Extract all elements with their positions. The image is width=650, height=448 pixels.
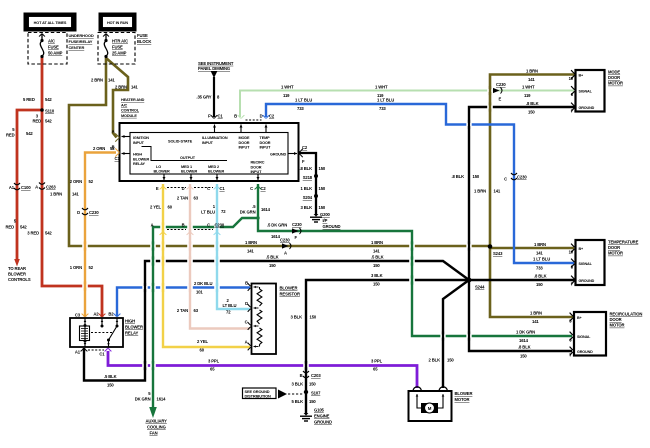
svg-text:BLOWER: BLOWER [8, 272, 26, 277]
svg-text:C2: C2 [302, 145, 308, 150]
svg-text:INPUT: INPUT [251, 170, 263, 174]
svg-text:C: C [250, 186, 253, 191]
svg-text:150: 150 [309, 399, 316, 404]
svg-text:DOOR: DOOR [608, 75, 620, 80]
svg-text:HIGH: HIGH [125, 319, 135, 324]
svg-text:.8 BLK: .8 BLK [299, 166, 312, 171]
svg-text:3 BLK: 3 BLK [291, 315, 303, 320]
svg-text:RECIRC: RECIRC [251, 161, 265, 165]
svg-text:542: 542 [45, 97, 52, 102]
svg-text:150: 150 [319, 205, 326, 210]
svg-text:RED: RED [6, 225, 15, 230]
svg-text:S110: S110 [45, 109, 55, 114]
svg-text:TEMPERATURE: TEMPERATURE [608, 240, 639, 245]
svg-text:119: 119 [283, 93, 290, 98]
svg-text:SIGNAL: SIGNAL [579, 262, 593, 266]
svg-text:INPUT: INPUT [260, 146, 272, 150]
svg-text:D: D [260, 114, 263, 119]
svg-text:1 LT BLU: 1 LT BLU [533, 257, 550, 262]
svg-text:150: 150 [528, 110, 535, 115]
svg-text:FAN: FAN [150, 431, 158, 436]
svg-text:GROUND: GROUND [270, 153, 287, 157]
svg-text:SIGNAL: SIGNAL [579, 89, 593, 93]
svg-text:50 AMP: 50 AMP [48, 51, 63, 56]
svg-text:D: D [77, 210, 80, 215]
svg-text:S244: S244 [475, 285, 485, 290]
svg-text:SEE INSTRUMENT: SEE INSTRUMENT [198, 61, 234, 66]
svg-text:DISTRIBUTION: DISTRIBUTION [245, 394, 272, 399]
svg-text:1 LT BLU: 1 LT BLU [377, 98, 394, 103]
svg-text:BLOWER: BLOWER [154, 170, 171, 174]
svg-text:150: 150 [473, 174, 480, 179]
svg-text:RED: RED [33, 118, 42, 123]
svg-text:1 WHT: 1 WHT [522, 85, 535, 90]
svg-text:BLOWER: BLOWER [181, 170, 198, 174]
svg-text:A: A [284, 251, 287, 256]
svg-text:BLOWER: BLOWER [208, 170, 225, 174]
svg-text:3 BLK: 3 BLK [301, 205, 313, 210]
svg-text:FUSE: FUSE [112, 45, 123, 50]
svg-text:.5 BLK: .5 BLK [266, 255, 279, 260]
svg-text:2 YEL: 2 YEL [197, 339, 209, 344]
svg-text:1 ORN: 1 ORN [70, 265, 82, 270]
svg-text:C: C [207, 186, 210, 191]
svg-text:2 BRN: 2 BRN [91, 78, 103, 83]
svg-text:DOOR: DOOR [610, 317, 622, 322]
svg-text:S107: S107 [311, 391, 321, 396]
svg-text:141: 141 [536, 251, 543, 256]
svg-text:141: 141 [72, 192, 79, 197]
svg-text:1614: 1614 [157, 397, 167, 402]
svg-text:COOLING: COOLING [147, 425, 166, 430]
svg-text:1614: 1614 [519, 338, 529, 343]
svg-text:2 BLK: 2 BLK [429, 358, 441, 363]
svg-text:141: 141 [108, 78, 115, 83]
svg-text:1 WHT: 1 WHT [281, 85, 294, 90]
svg-text:542: 542 [45, 231, 52, 236]
svg-text:B+: B+ [577, 316, 582, 320]
svg-text:C1: C1 [218, 114, 224, 119]
svg-text:HEATER AND: HEATER AND [121, 98, 145, 102]
svg-text:HIGH: HIGH [133, 153, 142, 157]
svg-text:150: 150 [373, 282, 380, 287]
svg-text:1 WHT: 1 WHT [375, 85, 388, 90]
svg-text:733: 733 [297, 106, 304, 111]
svg-text:B: B [300, 373, 303, 378]
svg-text:C2: C2 [269, 114, 275, 119]
svg-text:C230: C230 [496, 82, 506, 87]
svg-text:C100: C100 [21, 185, 31, 190]
svg-text:M: M [428, 406, 432, 411]
svg-text:MED 1: MED 1 [181, 165, 192, 169]
svg-text:25 AMP: 25 AMP [112, 51, 127, 56]
svg-text:2 BRN: 2 BRN [115, 85, 127, 90]
svg-text:1 BRN: 1 BRN [474, 189, 486, 194]
svg-text:A2: A2 [93, 312, 99, 317]
svg-text:S204: S204 [303, 195, 313, 200]
svg-text:1 BRN: 1 BRN [534, 242, 546, 247]
svg-text:LO: LO [156, 165, 161, 169]
svg-text:D: D [182, 186, 185, 191]
svg-text:ILLUMINATION: ILLUMINATION [202, 136, 228, 140]
svg-text:I/P: I/P [323, 218, 328, 223]
svg-text:150: 150 [310, 315, 317, 320]
svg-text:.5 DK GRN: .5 DK GRN [267, 223, 287, 228]
svg-text:.35 GRY: .35 GRY [196, 95, 211, 100]
svg-text:A/C: A/C [48, 39, 55, 44]
svg-text:BLOWER: BLOWER [125, 325, 143, 330]
svg-text:AUXILIARY: AUXILIARY [146, 419, 168, 424]
svg-text:TO REAR: TO REAR [8, 266, 26, 271]
svg-text:2 TAN: 2 TAN [177, 308, 188, 313]
svg-text:MOTOR: MOTOR [610, 323, 625, 328]
svg-text:RELAY: RELAY [133, 162, 146, 166]
svg-text:DOOR: DOOR [251, 165, 262, 169]
svg-text:S218: S218 [303, 175, 313, 180]
svg-text:TEMP: TEMP [260, 136, 271, 140]
svg-text:MODULE: MODULE [121, 114, 137, 118]
svg-text:1 LT BLU: 1 LT BLU [295, 98, 312, 103]
svg-text:MOTOR: MOTOR [608, 81, 623, 86]
svg-text:1 BRN: 1 BRN [530, 311, 542, 316]
svg-text:B: B [182, 223, 185, 228]
svg-text:FUSE: FUSE [48, 45, 59, 50]
svg-text:BLOCK: BLOCK [137, 39, 151, 44]
svg-text:C230: C230 [517, 175, 527, 180]
svg-text:RELAY: RELAY [125, 331, 139, 336]
svg-text:542: 542 [26, 131, 33, 136]
svg-text:C: C [504, 177, 507, 182]
svg-text:C263: C263 [46, 185, 56, 190]
svg-text:150: 150 [520, 354, 527, 359]
svg-text:B: B [234, 114, 237, 119]
svg-text:ENGINE: ENGINE [314, 414, 330, 419]
svg-text:CONTROL: CONTROL [121, 109, 140, 113]
svg-text:1 BRN: 1 BRN [526, 69, 538, 74]
svg-text:B+: B+ [579, 73, 584, 77]
svg-text:MOTOR: MOTOR [455, 397, 470, 402]
svg-text:INPUT: INPUT [239, 146, 251, 150]
svg-text:150: 150 [309, 382, 316, 387]
svg-text:2 YEL: 2 YEL [150, 205, 162, 210]
svg-text:141: 141 [528, 77, 535, 82]
svg-text:542: 542 [45, 118, 52, 123]
svg-text:2 ORN: 2 ORN [93, 146, 105, 151]
svg-text:733: 733 [536, 266, 543, 271]
svg-text:MED 2: MED 2 [208, 165, 219, 169]
svg-text:3 PPL: 3 PPL [371, 359, 383, 364]
svg-text:C203: C203 [311, 373, 321, 378]
svg-text:A1: A1 [9, 185, 15, 190]
svg-text:UNDERHOOD: UNDERHOOD [69, 33, 94, 38]
svg-text:1614: 1614 [261, 207, 271, 212]
svg-text:150: 150 [447, 358, 454, 363]
svg-text:CENTER: CENTER [69, 45, 85, 50]
svg-text:FUSE: FUSE [137, 33, 148, 38]
svg-text:150: 150 [319, 186, 326, 191]
svg-text:OUTPUT: OUTPUT [180, 156, 196, 160]
svg-text:LT BLU: LT BLU [201, 210, 215, 215]
svg-text:.8 BLK: .8 BLK [534, 274, 547, 279]
svg-text:2 ORN: 2 ORN [70, 179, 82, 184]
svg-text:RESISTOR: RESISTOR [280, 292, 300, 297]
svg-text:3 BLK: 3 BLK [371, 273, 383, 278]
svg-text:FUSE/RELAY: FUSE/RELAY [69, 39, 93, 44]
svg-text:150: 150 [319, 166, 326, 171]
svg-text:A1: A1 [75, 350, 81, 355]
svg-text:150: 150 [107, 383, 114, 388]
svg-text:GROUND: GROUND [323, 224, 341, 229]
svg-text:B+: B+ [579, 247, 584, 251]
svg-text:5 RED: 5 RED [23, 97, 35, 102]
svg-text:1 BRN: 1 BRN [245, 240, 257, 245]
svg-text:119: 119 [524, 93, 531, 98]
svg-text:5 BLK: 5 BLK [292, 399, 304, 404]
svg-text:CONTROLS: CONTROLS [8, 277, 31, 282]
svg-text:.5 BLK: .5 BLK [104, 374, 117, 379]
svg-text:DK GRN: DK GRN [240, 210, 256, 215]
svg-text:3 BLK: 3 BLK [292, 382, 304, 387]
svg-text:1 BRN: 1 BRN [50, 192, 62, 197]
svg-text:.8 BLK: .8 BLK [518, 345, 531, 350]
svg-text:MOTOR: MOTOR [608, 251, 623, 256]
svg-text:C230: C230 [215, 223, 225, 228]
svg-text:141: 141 [532, 319, 539, 324]
svg-text:DK GRN: DK GRN [135, 397, 151, 402]
svg-text:GROUND: GROUND [579, 279, 595, 283]
svg-text:2 TAN: 2 TAN [177, 196, 188, 201]
svg-text:BLOWER: BLOWER [133, 157, 150, 161]
svg-text:1 BLK: 1 BLK [301, 186, 313, 191]
svg-text:.8 BLK: .8 BLK [451, 174, 464, 179]
svg-text:A/C: A/C [121, 103, 128, 107]
svg-text:A: A [245, 340, 248, 345]
svg-text:HTR A/C: HTR A/C [112, 39, 128, 44]
svg-text:INPUT: INPUT [202, 141, 214, 145]
svg-text:INPUT: INPUT [133, 141, 145, 145]
svg-text:A: A [151, 223, 154, 228]
svg-text:LT BLU: LT BLU [223, 303, 237, 308]
svg-text:G200: G200 [320, 212, 331, 217]
svg-text:S243: S243 [493, 251, 503, 256]
svg-text:C1: C1 [99, 352, 105, 357]
svg-text:C2: C2 [261, 186, 267, 191]
svg-text:E: E [156, 186, 159, 191]
svg-text:GROUND: GROUND [314, 420, 332, 425]
svg-text:DOOR: DOOR [239, 141, 250, 145]
svg-text:C230: C230 [292, 222, 302, 227]
svg-text:1614: 1614 [271, 234, 281, 239]
svg-text:GROUND: GROUND [579, 106, 595, 110]
svg-text:150: 150 [269, 263, 276, 268]
svg-text:RED: RED [6, 133, 15, 138]
svg-text:HOT IN RUN: HOT IN RUN [107, 21, 128, 25]
svg-text:C3: C3 [75, 313, 81, 318]
svg-text:BLOWER: BLOWER [455, 391, 473, 396]
svg-text:C230: C230 [280, 238, 290, 243]
svg-text:C: C [245, 320, 248, 325]
svg-text:G105: G105 [314, 408, 325, 413]
svg-text:A: A [35, 185, 38, 190]
svg-text:733: 733 [379, 106, 386, 111]
svg-text:MODE: MODE [239, 136, 250, 140]
svg-text:D: D [245, 301, 248, 306]
svg-text:C230: C230 [89, 210, 99, 215]
svg-text:SOLID-STATE: SOLID-STATE [168, 139, 193, 144]
svg-text:DOOR: DOOR [260, 141, 271, 145]
svg-text:542: 542 [20, 225, 27, 230]
svg-text:B2: B2 [108, 312, 114, 317]
svg-text:C: C [207, 223, 210, 228]
svg-text:SIGNAL: SIGNAL [577, 335, 591, 339]
svg-text:1 DK GRN: 1 DK GRN [516, 330, 535, 335]
svg-text:PANEL DIMMING: PANEL DIMMING [198, 66, 230, 71]
svg-text:MODE: MODE [608, 70, 620, 75]
svg-text:101: 101 [196, 290, 203, 295]
svg-text:141: 141 [131, 85, 138, 90]
svg-text:141: 141 [494, 189, 501, 194]
svg-text:2 DK BLU: 2 DK BLU [194, 281, 212, 286]
svg-text:DOOR: DOOR [608, 245, 620, 250]
svg-text:RECIRCULATION: RECIRCULATION [610, 312, 643, 317]
svg-text:150: 150 [373, 263, 380, 268]
svg-text:HOT AT ALL TIMES: HOT AT ALL TIMES [34, 21, 67, 25]
svg-text:141: 141 [373, 249, 380, 254]
svg-text:.5 BLK: .5 BLK [371, 255, 384, 260]
svg-text:150: 150 [536, 282, 543, 287]
svg-text:141: 141 [247, 249, 254, 254]
svg-text:C1: C1 [220, 186, 226, 191]
svg-text:1 BRN: 1 BRN [371, 240, 383, 245]
svg-text:GROUND: GROUND [577, 350, 593, 354]
svg-text:.8 BLK: .8 BLK [526, 101, 539, 106]
svg-text:IGNITION: IGNITION [133, 136, 149, 140]
svg-text:BLOWER: BLOWER [280, 286, 298, 291]
svg-text:E: E [499, 97, 502, 102]
svg-text:A: A [112, 129, 115, 134]
svg-text:B: B [245, 281, 248, 286]
svg-text:3 PPL: 3 PPL [208, 359, 220, 364]
svg-text:3 RED: 3 RED [27, 231, 39, 236]
svg-text:C1: C1 [115, 156, 121, 161]
